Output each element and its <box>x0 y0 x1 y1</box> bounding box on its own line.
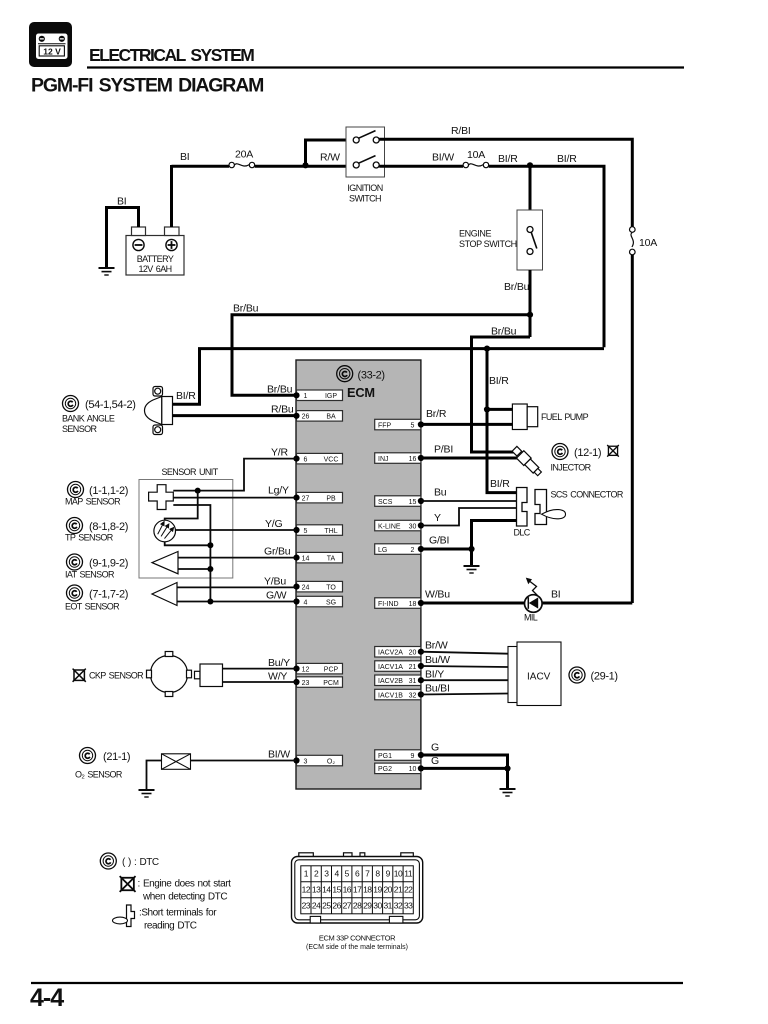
svg-text:27: 27 <box>343 901 352 911</box>
battery logo badge <box>29 22 72 67</box>
wire Bu/W IACV1A <box>421 666 508 667</box>
wire Br/R FFP to fuel pump <box>421 423 513 426</box>
svg-text:20A: 20A <box>235 149 253 161</box>
svg-text:IAT SENSOR: IAT SENSOR <box>65 570 115 580</box>
node G/BI junction <box>468 546 474 552</box>
svg-text:INJ: INJ <box>378 456 389 463</box>
svg-text:5: 5 <box>304 528 308 535</box>
svg-text:P/BI: P/BI <box>434 444 453 456</box>
svg-text:Y/Bu: Y/Bu <box>264 576 286 588</box>
svg-text:R/Bu: R/Bu <box>271 404 294 416</box>
node VCC branch <box>195 488 201 494</box>
svg-text:9: 9 <box>411 753 415 760</box>
svg-text:Br/R: Br/R <box>426 408 447 420</box>
svg-text:PG2: PG2 <box>378 766 392 773</box>
pin FI-IND 18 <box>375 598 424 609</box>
svg-text:Bu/Y: Bu/Y <box>268 657 290 669</box>
svg-text:FUEL PUMP: FUEL PUMP <box>541 412 589 422</box>
svg-text:PGM-FI SYSTEM DIAGRAM: PGM-FI SYSTEM DIAGRAM <box>31 75 263 97</box>
svg-text:23: 23 <box>302 680 310 687</box>
crossed box CKP <box>73 669 86 682</box>
wire BI/Y IACV2B <box>421 679 508 681</box>
svg-text:5: 5 <box>411 422 415 429</box>
wire Gr/Bu IAT to pin TA <box>178 557 296 559</box>
svg-text:1: 1 <box>304 393 308 400</box>
svg-text:STOP SWITCH: STOP SWITCH <box>459 239 517 249</box>
svg-text:Y: Y <box>434 512 441 524</box>
svg-text:BI/R: BI/R <box>557 153 577 165</box>
node Br/Bu branch <box>527 312 533 318</box>
wire W/Y CKP to pin PCM <box>223 681 297 683</box>
svg-text:MIL: MIL <box>524 613 538 623</box>
wire stop switch output Br/Bu down <box>529 270 532 337</box>
wire VCC branch down to TP top <box>165 491 198 521</box>
svg-text:BANK ANGLE: BANK ANGLE <box>62 414 115 424</box>
svg-text:19: 19 <box>373 885 382 895</box>
DTC symbol bank angle (54-1,54-2) <box>63 396 79 412</box>
svg-text:(9-1,9-2): (9-1,9-2) <box>89 558 128 570</box>
svg-text:G/W: G/W <box>266 590 287 602</box>
pin FFP 5 <box>375 419 424 430</box>
svg-text:THL: THL <box>324 528 337 535</box>
svg-text:32: 32 <box>394 901 403 911</box>
svg-text:Br/W: Br/W <box>425 640 448 652</box>
wire BI/W O2 to pin 3 <box>191 760 297 762</box>
svg-text:BI: BI <box>180 151 190 163</box>
svg-text:33: 33 <box>404 901 413 911</box>
header rule <box>87 66 684 68</box>
svg-text:11: 11 <box>404 869 413 879</box>
svg-text:IACV1A: IACV1A <box>378 664 403 671</box>
wire right rail down to MIL line (BI) <box>631 255 634 603</box>
svg-text:SCS CONNECTOR: SCS CONNECTOR <box>551 490 624 500</box>
svg-text:G: G <box>431 742 439 754</box>
svg-text:PCP: PCP <box>324 666 339 673</box>
wire R/BI from ignition top pole to right rail <box>379 139 632 227</box>
svg-text:G/BI: G/BI <box>429 535 449 547</box>
ECM box U1 <box>296 360 421 789</box>
svg-text:2: 2 <box>411 547 415 554</box>
svg-text:BA: BA <box>326 414 336 421</box>
svg-text:27: 27 <box>302 495 310 502</box>
legend short terminal symbol <box>127 905 135 927</box>
svg-text:BI/Y: BI/Y <box>425 669 444 681</box>
svg-text:IACV2B: IACV2B <box>378 678 403 685</box>
svg-text:21: 21 <box>394 885 403 895</box>
svg-text:18: 18 <box>409 601 417 608</box>
pin 24 TO <box>293 581 342 592</box>
svg-text:BI/R: BI/R <box>498 153 518 165</box>
svg-text:PG1: PG1 <box>378 753 392 760</box>
svg-text:IACV: IACV <box>527 672 551 683</box>
svg-text:13: 13 <box>312 885 321 895</box>
svg-text:BI/R: BI/R <box>176 390 196 402</box>
MIL lamp <box>524 578 542 623</box>
svg-text:PCM: PCM <box>323 680 339 687</box>
svg-text:Br/Bu: Br/Bu <box>267 384 293 396</box>
svg-text:15: 15 <box>332 885 341 895</box>
svg-text:ECM: ECM <box>347 385 375 400</box>
DTC symbol MAP (1-1,1-2) <box>68 482 84 498</box>
SCS oval pointer <box>542 510 566 519</box>
svg-text:(ECM side of the male terminal: (ECM side of the male terminals) <box>306 944 408 951</box>
sensor unit box <box>139 480 233 579</box>
svg-text:17: 17 <box>353 885 362 895</box>
ignition switch SW1 <box>346 127 385 204</box>
pin IACV1A 21 <box>375 661 424 672</box>
svg-text:12: 12 <box>302 666 310 673</box>
svg-text:FFP: FFP <box>378 422 392 429</box>
svg-text:(54-1,54-2): (54-1,54-2) <box>85 399 136 411</box>
EOT sensor symbol <box>152 583 177 606</box>
svg-text:ELECTRICAL SYSTEM: ELECTRICAL SYSTEM <box>89 45 254 65</box>
svg-text:SG: SG <box>326 599 336 606</box>
pin 14 TA <box>293 552 342 563</box>
svg-text:SWITCH: SWITCH <box>349 194 381 204</box>
svg-text:4-4: 4-4 <box>30 984 64 1012</box>
pin LG 2 <box>375 544 424 555</box>
svg-text:IGP: IGP <box>325 393 337 400</box>
svg-text:10: 10 <box>394 869 403 879</box>
svg-text:BATTERY: BATTERY <box>137 254 174 264</box>
svg-text:22: 22 <box>404 885 413 895</box>
wire G/W EOT to pin SG <box>177 601 296 603</box>
pin 3 O2 <box>293 755 342 766</box>
svg-text:(33-2): (33-2) <box>358 370 385 382</box>
pin K-LINE 30 <box>375 520 424 531</box>
svg-text:G: G <box>431 755 439 767</box>
wire R/Bu bank angle to pin BA <box>173 414 297 417</box>
wire Y K-LINE to DLC <box>421 508 517 526</box>
wire Y/R VCC to MAP and TP <box>173 459 296 491</box>
svg-text:Bu/BI: Bu/BI <box>425 683 450 695</box>
svg-text:TO: TO <box>326 584 336 591</box>
svg-text:BI/W: BI/W <box>432 152 454 164</box>
pin 12 PCP <box>293 663 342 674</box>
svg-text:reading DTC: reading DTC <box>144 921 197 932</box>
svg-text:(21-1): (21-1) <box>103 751 130 763</box>
wire W/Bu FI-IND to MIL <box>421 602 632 605</box>
svg-text:LG: LG <box>378 547 387 554</box>
ground battery <box>99 268 115 275</box>
svg-text:BI/R: BI/R <box>490 478 510 490</box>
svg-text:24: 24 <box>302 584 310 591</box>
svg-text:Br/Bu: Br/Bu <box>504 281 530 293</box>
fuse 20A <box>229 149 255 168</box>
svg-text:SCS: SCS <box>378 499 393 506</box>
svg-text:4: 4 <box>304 599 308 606</box>
svg-text:Bu/W: Bu/W <box>425 654 450 666</box>
svg-text:W/Bu: W/Bu <box>425 589 450 601</box>
svg-text:12 V: 12 V <box>43 46 61 56</box>
svg-text:Y/R: Y/R <box>271 447 289 459</box>
node PG junction <box>504 765 510 771</box>
svg-text:26: 26 <box>332 901 341 911</box>
wire P/BI INJ to injector <box>421 457 521 460</box>
engine stop switch SW2 <box>459 210 543 270</box>
wire Br/Bu to injector feed <box>472 337 531 452</box>
svg-text:FI-IND: FI-IND <box>378 601 399 608</box>
svg-text:ENGINE: ENGINE <box>459 229 492 239</box>
pin 6 VCC <box>293 453 342 464</box>
svg-text:TA: TA <box>327 555 336 562</box>
DTC symbol injector (12-1) <box>552 444 568 460</box>
svg-text:TP SENSOR: TP SENSOR <box>65 533 114 543</box>
wire battery plus up <box>170 165 173 227</box>
svg-text:(12-1): (12-1) <box>574 447 601 459</box>
svg-text:MAP SENSOR: MAP SENSOR <box>65 497 121 507</box>
svg-text:BI/W: BI/W <box>268 749 290 761</box>
svg-text::Short terminals for: :Short terminals for <box>139 908 217 919</box>
O2 sensor symbol <box>162 754 191 770</box>
svg-text:10A: 10A <box>467 149 485 161</box>
wire IAT bottom to SG rail <box>178 568 210 570</box>
ground G/BI <box>464 566 480 573</box>
svg-text:32: 32 <box>409 692 417 699</box>
svg-text:CKP SENSOR: CKP SENSOR <box>89 671 144 681</box>
svg-text:IACV1B: IACV1B <box>378 692 403 699</box>
wire TP bottom to SG rail <box>165 542 211 546</box>
wire BI/R to fuel pump <box>487 408 512 411</box>
MAP sensor symbol <box>149 485 174 510</box>
svg-text:: Engine does not start: : Engine does not start <box>138 879 232 890</box>
legend DTC symbol <box>100 853 116 869</box>
svg-text:Gr/Bu: Gr/Bu <box>264 546 291 558</box>
DTC symbol EOT (7-1,7-2) <box>67 585 83 601</box>
wire Bu SCS to DLC <box>421 500 517 502</box>
svg-text:12: 12 <box>302 885 311 895</box>
wire Y/G TP wiper to pin THL <box>176 529 297 531</box>
wire BI/R down to fuel pump and DLC <box>487 349 517 493</box>
svg-text:31: 31 <box>383 901 392 911</box>
fuel pump <box>512 404 537 430</box>
ground O2 <box>139 790 155 797</box>
wire BI/R main distribution line <box>173 349 604 405</box>
svg-text:3: 3 <box>304 758 308 765</box>
wire Y/Bu EOT to pin TO <box>177 586 296 588</box>
pin PG2 10 <box>375 763 424 774</box>
wire Bu/Y CKP to pin PCP <box>223 668 297 670</box>
bank angle sensor <box>145 387 173 435</box>
fuse 10A right rail <box>630 227 658 255</box>
ECM 33P connector drawing <box>292 853 423 923</box>
ECM 33P pin grid <box>301 866 414 914</box>
injector symbol <box>511 445 543 477</box>
pin INJ 16 <box>375 453 424 464</box>
wire G/BI LG to ground and DLC <box>421 549 472 566</box>
fuse 10A BI/W <box>463 149 489 168</box>
svg-text:( ) : DTC: ( ) : DTC <box>122 857 159 868</box>
svg-text:16: 16 <box>409 456 417 463</box>
svg-text:(8-1,8-2): (8-1,8-2) <box>89 521 128 533</box>
svg-text:15: 15 <box>409 499 417 506</box>
wire G/BI up to DLC <box>472 521 517 550</box>
pin 1 IGP <box>293 390 342 401</box>
svg-text:SENSOR: SENSOR <box>62 424 98 434</box>
svg-text:BI: BI <box>551 589 561 601</box>
DTC symbol IAT (9-1,9-2) <box>67 554 83 570</box>
svg-text:Lg/Y: Lg/Y <box>268 485 289 497</box>
svg-text:21: 21 <box>409 664 417 671</box>
wire G PG1 <box>421 755 508 768</box>
pin PG1 9 <box>375 750 424 761</box>
svg-text:23: 23 <box>302 901 311 911</box>
CKP sensor <box>147 652 223 697</box>
pin IACV2A 20 <box>375 647 424 658</box>
svg-text:14: 14 <box>322 885 331 895</box>
svg-text:31: 31 <box>409 678 417 685</box>
node BI/R branch to fuel pump <box>484 346 490 352</box>
wire Br/W IACV2A <box>421 652 508 654</box>
legend crossed box <box>120 876 136 892</box>
pin 28 BA <box>293 411 342 422</box>
node SG junction <box>207 599 213 605</box>
wire BI/R fuse to junction to right <box>489 166 604 347</box>
svg-text:(7-1,7-2): (7-1,7-2) <box>89 589 128 601</box>
DTC symbol TP (8-1,8-2) <box>67 518 83 534</box>
wire main feed to 20A fuse <box>172 165 230 168</box>
svg-text:26: 26 <box>302 414 310 421</box>
wire junction up to top pole <box>306 140 353 165</box>
svg-text:VCC: VCC <box>324 456 339 463</box>
node stop switch junction <box>527 162 533 168</box>
ground PG <box>500 789 516 796</box>
wire Br/Bu line to ECM IGP <box>232 315 530 396</box>
svg-text:30: 30 <box>373 901 382 911</box>
pin SCS 15 <box>375 496 424 507</box>
footer rule <box>31 982 683 984</box>
node R/W junction <box>302 162 308 168</box>
svg-text:INJECTOR: INJECTOR <box>551 463 592 473</box>
wire O2 to ground <box>147 761 162 791</box>
node IAT ground junction <box>207 566 213 572</box>
svg-text:O₂: O₂ <box>327 758 335 765</box>
svg-text:R/W: R/W <box>320 152 340 164</box>
svg-text:24: 24 <box>312 901 321 911</box>
DTC symbol IACV (29-1) <box>569 667 585 683</box>
wire battery minus to ground (BI) <box>107 208 139 269</box>
wire Lg/Y MAP to pin PB <box>173 497 296 499</box>
svg-text:K-LINE: K-LINE <box>378 523 401 530</box>
svg-text:DLC: DLC <box>514 528 531 538</box>
wire G PG2 <box>421 768 508 789</box>
wire Bu/BI IACV1B <box>421 694 508 695</box>
svg-text:when detecting DTC: when detecting DTC <box>142 892 227 903</box>
svg-text:BI: BI <box>117 196 127 208</box>
svg-text:ECM 33P CONNECTOR: ECM 33P CONNECTOR <box>319 934 396 943</box>
pin IACV1B 32 <box>375 689 424 700</box>
svg-text:O₂ SENSOR: O₂ SENSOR <box>75 770 123 780</box>
svg-text:Br/Bu: Br/Bu <box>491 326 517 338</box>
svg-text:12V 6AH: 12V 6AH <box>138 264 171 274</box>
DTC symbol O2 (21-1) <box>80 748 96 764</box>
svg-text:20: 20 <box>383 885 392 895</box>
svg-text:30: 30 <box>409 523 417 530</box>
svg-text:18: 18 <box>363 885 372 895</box>
SCS connector plug <box>535 490 547 525</box>
pin IACV2B 31 <box>375 675 424 686</box>
svg-text:BI/R: BI/R <box>489 375 509 387</box>
svg-text:W/Y: W/Y <box>268 671 287 683</box>
IAT sensor symbol <box>152 552 178 574</box>
svg-text:IGNITION: IGNITION <box>347 183 382 193</box>
node fuel pump junction <box>484 406 490 412</box>
svg-text:Bu: Bu <box>434 487 447 499</box>
svg-text:Y/G: Y/G <box>265 518 283 530</box>
DTC symbol ECM (33-2) <box>337 366 353 382</box>
svg-text:14: 14 <box>302 555 310 562</box>
wire junction down to engine stop switch <box>529 165 532 210</box>
svg-text:28: 28 <box>353 901 362 911</box>
svg-text:10: 10 <box>409 766 417 773</box>
node TP ground junction <box>207 542 213 548</box>
svg-text:R/BI: R/BI <box>451 125 471 137</box>
svg-text:25: 25 <box>322 901 331 911</box>
wire MAP ground to SG rail <box>173 505 210 602</box>
svg-text:10A: 10A <box>639 237 657 249</box>
svg-text:IACV2A: IACV2A <box>378 650 403 657</box>
svg-text:29: 29 <box>363 901 372 911</box>
wire fuse to junction and ignition switch <box>255 165 353 168</box>
svg-text:EOT SENSOR: EOT SENSOR <box>65 602 120 612</box>
svg-text:SENSOR UNIT: SENSOR UNIT <box>162 467 219 477</box>
svg-text:(1-1,1-2): (1-1,1-2) <box>89 485 128 497</box>
svg-text:(29-1): (29-1) <box>591 671 618 683</box>
svg-text:20: 20 <box>409 650 417 657</box>
svg-text:PB: PB <box>326 495 336 502</box>
pin 5 THL <box>293 525 342 536</box>
IACV connector <box>508 642 561 706</box>
svg-text:Br/Bu: Br/Bu <box>233 303 259 315</box>
TP sensor symbol <box>154 520 176 542</box>
pin 27 PB <box>293 492 342 503</box>
wire ignition bottom pole BI/W to 10A fuse <box>379 165 463 168</box>
crossed box injector <box>607 445 619 457</box>
pin 4 SG <box>293 596 342 607</box>
DLC connector <box>517 488 528 527</box>
pin 23 PCM <box>293 677 342 688</box>
battery BT1 <box>126 227 184 275</box>
svg-text:16: 16 <box>343 885 352 895</box>
svg-text:6: 6 <box>304 456 308 463</box>
